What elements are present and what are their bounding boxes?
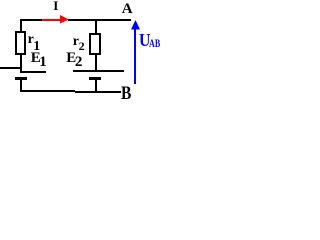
wire top horizontal right black segment xyxy=(68,19,131,21)
resistor r2 box xyxy=(89,33,101,55)
resistor r1 box xyxy=(15,31,26,55)
label E2 xyxy=(66,51,76,66)
current arrow I (red) on top wire xyxy=(42,14,70,25)
wire top horizontal left black segment xyxy=(20,19,42,21)
wire left branch vertical (top) xyxy=(20,19,22,31)
wire bottom horizontal right segment xyxy=(75,91,121,93)
node B label xyxy=(121,84,131,103)
battery E1 short plate xyxy=(15,77,27,80)
label r1 xyxy=(28,33,34,47)
label r2 xyxy=(73,35,79,49)
battery E2 short plate xyxy=(89,77,101,80)
wire middle branch vertical (top) xyxy=(95,21,97,33)
label E1 xyxy=(31,51,41,66)
voltage arrow U_AB (blue, pointing up) xyxy=(130,19,142,85)
wire middle branch vertical (middle) xyxy=(95,55,97,70)
battery E2 long plate xyxy=(73,70,124,72)
label U_AB xyxy=(139,31,150,49)
battery E1 long plate (left part) xyxy=(0,67,21,69)
node A label xyxy=(122,2,133,17)
battery E1 plate right part xyxy=(21,71,46,73)
wire middle branch vertical (bottom) xyxy=(95,79,97,91)
wire left branch vertical (middle) xyxy=(20,55,22,73)
wire left branch vertical (bottom) xyxy=(20,79,22,91)
wire bottom horizontal left segment xyxy=(20,90,75,92)
label I xyxy=(53,0,58,12)
